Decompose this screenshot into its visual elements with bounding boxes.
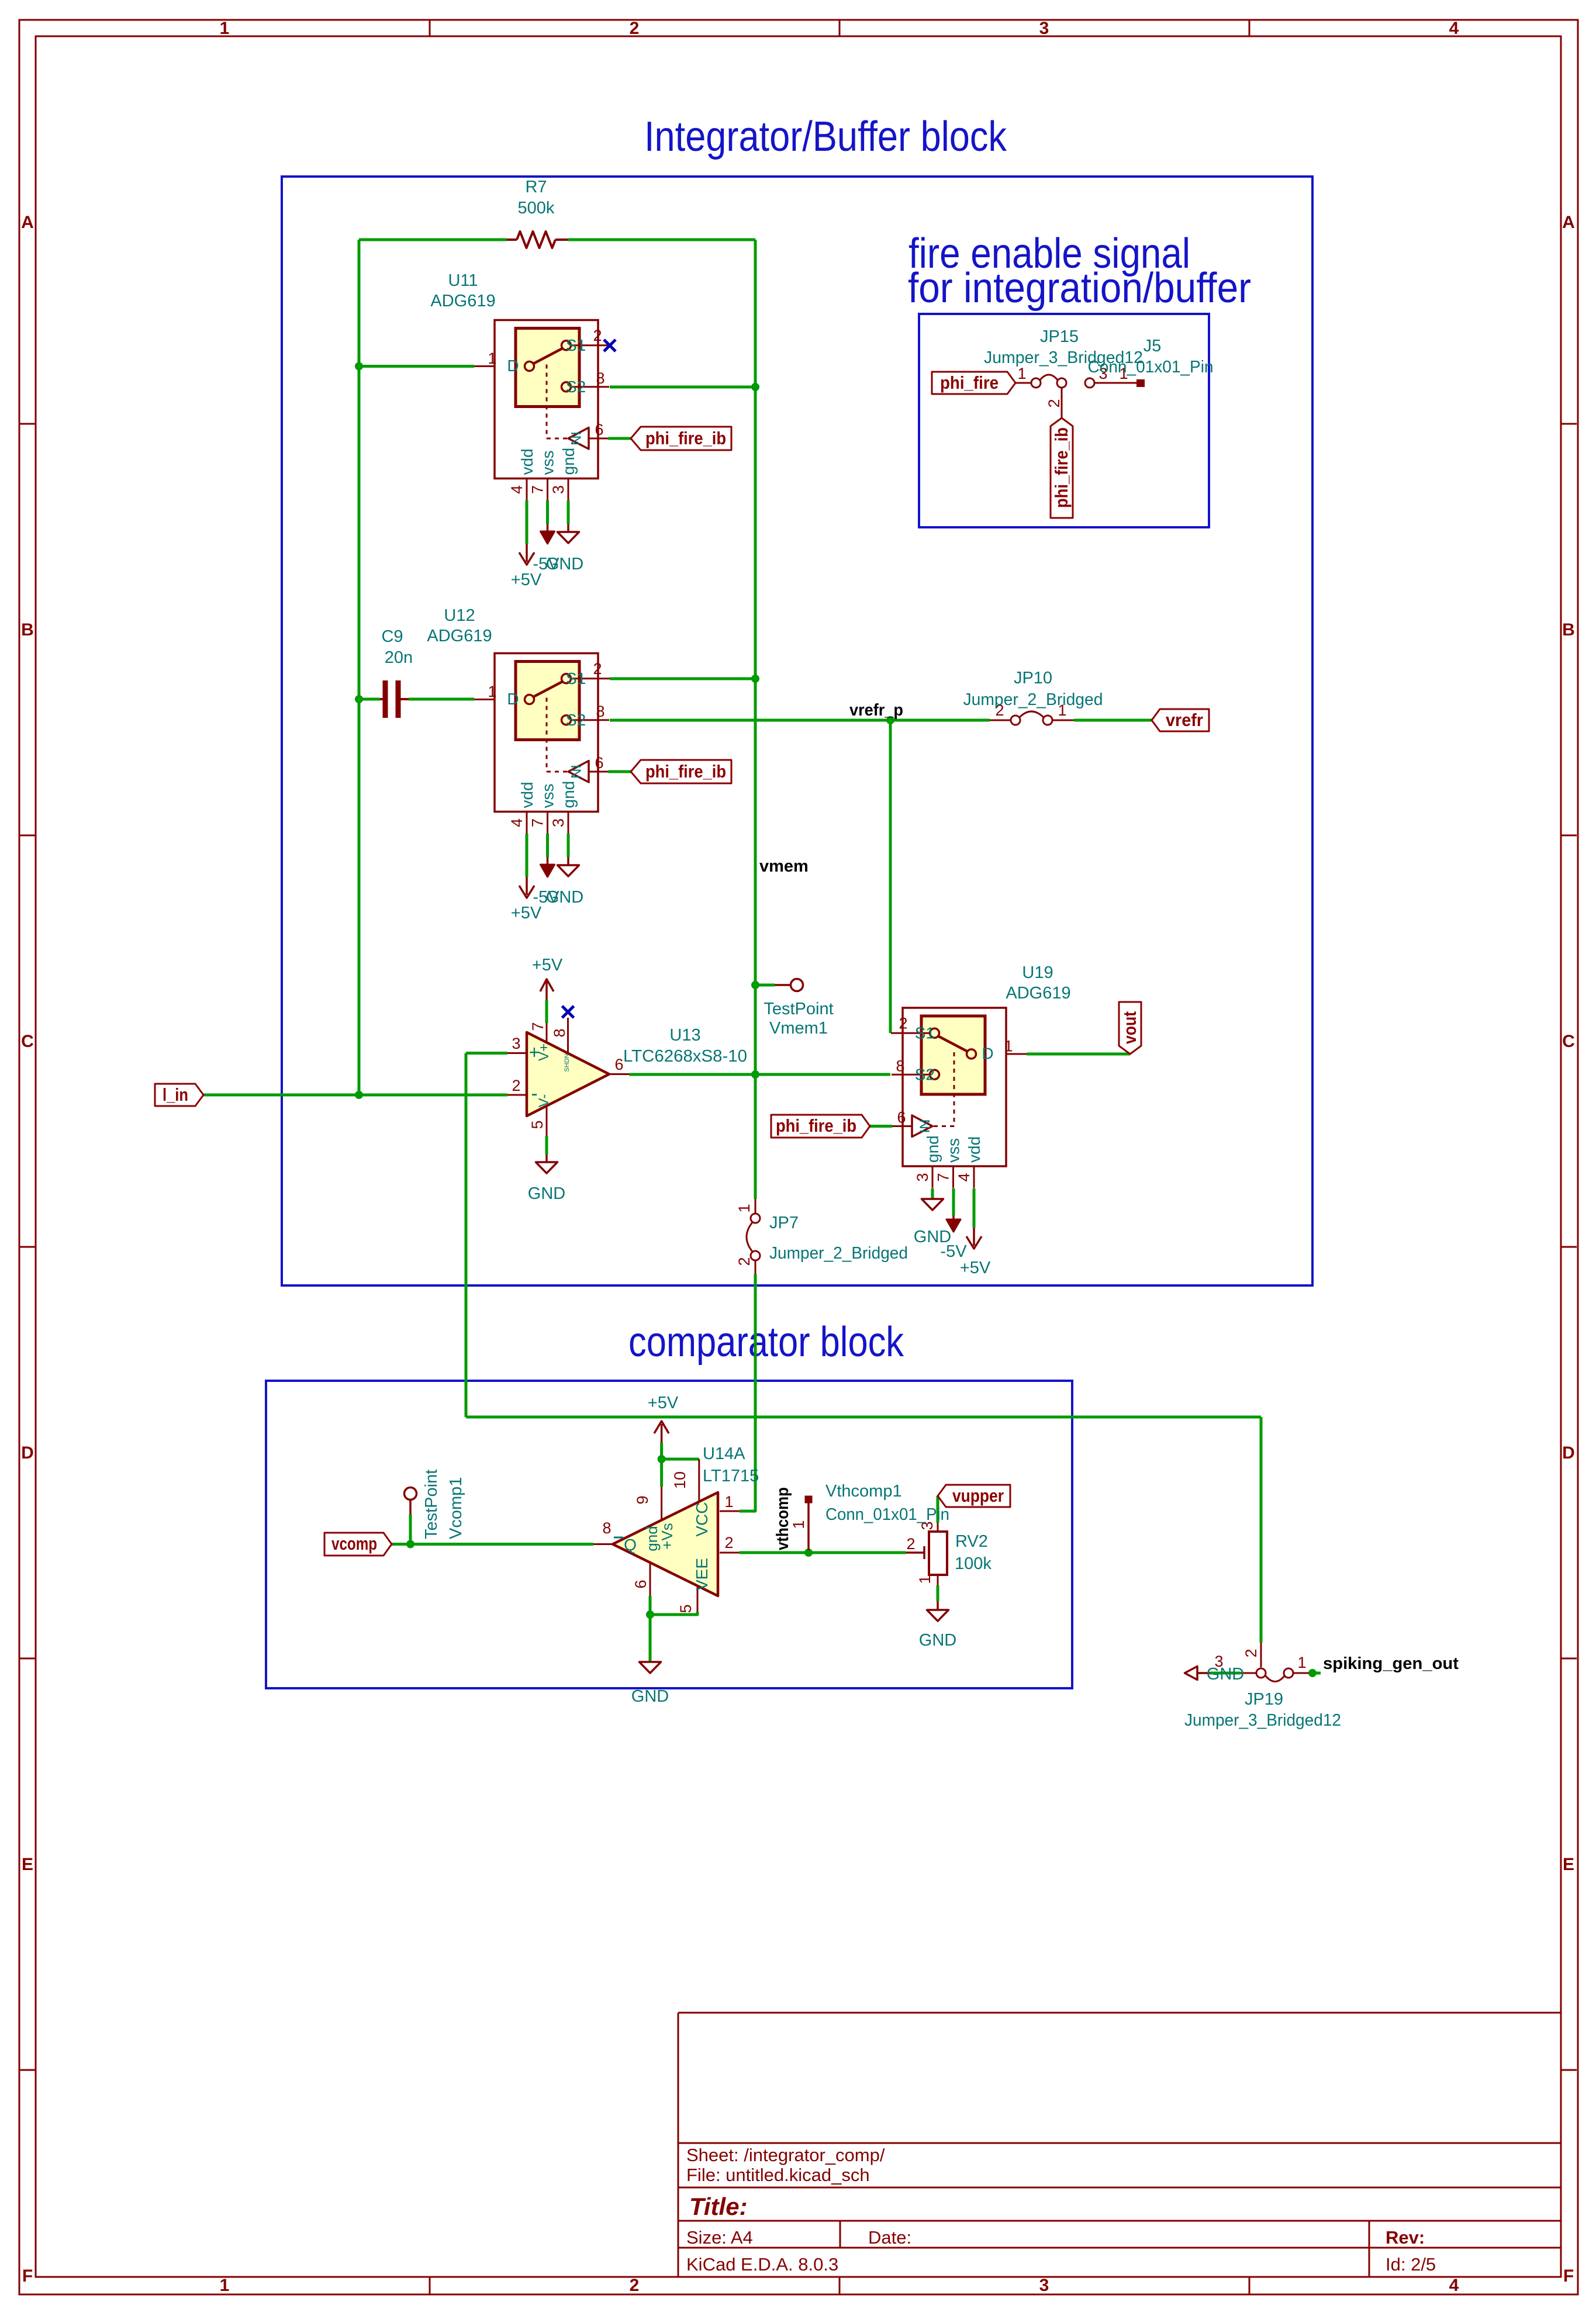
svg-text:V-: V- [536, 1094, 552, 1108]
wire RV2 pin1 to gnd [937, 1585, 939, 1601]
title block texts [686, 2145, 1436, 2275]
global label vertical phi_fire_ib (JP15 pin2) [1051, 418, 1073, 518]
svg-text:gnd: gnd [559, 448, 578, 475]
op-amp U13 LTC6268xS8-10 [507, 1018, 629, 1136]
svg-text:E: E [22, 1855, 33, 1874]
global label phi_fire_ib (U12 pin6) [631, 760, 731, 783]
analog switch U11 ADG619 [474, 320, 610, 501]
svg-text:6: 6 [595, 421, 603, 438]
svg-text:vrefr: vrefr [1166, 710, 1203, 730]
svg-text:U14A: U14A [703, 1444, 745, 1463]
potentiometer RV2 100k [906, 1521, 992, 1585]
svg-text:S1: S1 [566, 336, 586, 354]
no-connect U11 pin2 [604, 340, 616, 351]
svg-text:U13: U13 [669, 1026, 700, 1045]
svg-text:1: 1 [220, 2276, 230, 2295]
svg-text:D: D [507, 357, 519, 375]
wire right vertical feedback bus [754, 240, 757, 1074]
svg-text:TestPoint: TestPoint [764, 1000, 833, 1018]
svg-text:+Vs: +Vs [658, 1523, 676, 1550]
wire U19 vss stub [952, 1188, 955, 1215]
jumper JP10 Jumper_2_Bridged [963, 669, 1103, 725]
svg-text:+5V: +5V [532, 956, 563, 974]
svg-text:3: 3 [512, 1035, 520, 1052]
svg-text:4: 4 [1449, 2276, 1459, 2295]
svg-text:Conn_01x01_Pin: Conn_01x01_Pin [825, 1505, 949, 1524]
svg-text:1: 1 [724, 1493, 733, 1511]
svg-text:JP15: JP15 [1040, 327, 1079, 346]
svg-text:vss: vss [945, 1138, 963, 1163]
U12 reference and value labels [427, 606, 492, 645]
svg-text:GND: GND [1207, 1665, 1244, 1684]
U13 reference and value labels [623, 1026, 747, 1066]
title block [678, 2013, 1561, 2277]
wire U12 pin2 S1 [610, 678, 755, 680]
svg-text:IN: IN [568, 765, 583, 779]
svg-text:vupper: vupper [952, 1485, 1004, 1506]
svg-text:GND: GND [631, 1687, 669, 1706]
svg-text:6: 6 [595, 754, 603, 772]
power +5V at U13 pin7 [532, 956, 563, 1000]
svg-text:3: 3 [914, 1173, 931, 1181]
svg-text:4: 4 [955, 1173, 973, 1181]
svg-text:2: 2 [899, 1015, 907, 1032]
svg-text:Sheet: /integrator_comp/: Sheet: /integrator_comp/ [686, 2145, 885, 2165]
power GND below U14 [631, 1662, 669, 1706]
connector J5 Conn_01x01_Pin labels [1088, 337, 1214, 376]
wire U13 pin3 [466, 1052, 507, 1055]
junction testpoint Vmem1 [751, 981, 759, 989]
U11 reference and value labels [430, 271, 495, 310]
svg-text:8: 8 [596, 369, 604, 387]
wire U19 pin6 from phi_fire_ib [870, 1125, 893, 1128]
svg-text:for integration/buffer: for integration/buffer [908, 265, 1251, 312]
wire +5V to U14 supply [660, 1443, 663, 1459]
svg-text:+5V: +5V [648, 1394, 679, 1412]
wire spiking_gen_out stub [1312, 1672, 1321, 1675]
svg-text:S1: S1 [915, 1024, 935, 1042]
svg-text:vout: vout [1120, 1011, 1140, 1044]
wire U12 gnd stub [567, 834, 570, 858]
svg-text:4: 4 [508, 818, 526, 827]
svg-text:1: 1 [1017, 365, 1026, 382]
global label phi_fire_ib (U19 pin6) [771, 1115, 870, 1138]
wire R7 right feedback [568, 239, 755, 241]
wire C9 left [359, 698, 380, 701]
svg-text:ADG619: ADG619 [1006, 984, 1070, 1003]
wire U14 pin10 feed [662, 1458, 699, 1461]
note: fire enable signal text [908, 230, 1251, 312]
svg-text:2: 2 [724, 1534, 733, 1551]
svg-text:spiking_gen_out: spiking_gen_out [1323, 1654, 1459, 1673]
test point Vcomp1 [405, 1470, 466, 1539]
svg-text:U11: U11 [448, 271, 478, 290]
svg-text:JP10: JP10 [1014, 669, 1052, 687]
svg-text:2: 2 [512, 1077, 520, 1094]
wire U14 pin5 link [650, 1612, 697, 1615]
svg-text:10: 10 [671, 1471, 689, 1489]
wire U13 +input vertical [465, 1053, 468, 1418]
svg-text:3: 3 [550, 485, 567, 494]
wire JP7 lower to U14 VCC [740, 1274, 755, 1511]
svg-text:2: 2 [1045, 399, 1063, 407]
wire vrefr_p vertical to U19 [889, 720, 892, 1033]
power GND at RV2 pin1 [919, 1601, 956, 1650]
svg-text:Q: Q [624, 1536, 637, 1554]
wire l_in to U13 pin2 [203, 1094, 507, 1097]
wire JP7 upper [754, 1074, 757, 1199]
power GND at U19 gnd [914, 1199, 951, 1246]
svg-text:S1: S1 [566, 669, 586, 687]
svg-text:3: 3 [550, 818, 567, 827]
junction vrefr_p [886, 716, 894, 724]
svg-text:JP7: JP7 [769, 1214, 799, 1232]
svg-text:vdd: vdd [518, 782, 536, 808]
junction l_in / U13 -input [355, 1091, 363, 1099]
svg-text:phi_fire_ib: phi_fire_ib [645, 761, 726, 782]
power +5V above U14 [648, 1394, 679, 1443]
global label vupper [938, 1485, 1010, 1507]
wire U14 pin2 out to RV2 [740, 1551, 906, 1554]
svg-text:8: 8 [896, 1057, 904, 1075]
svg-text:7: 7 [529, 1022, 547, 1031]
svg-text:gnd: gnd [559, 781, 578, 808]
power +5V at U19 vdd [960, 1228, 991, 1277]
note box: fire enable block [919, 314, 1209, 527]
wire C9 right to U12 pin1 [409, 698, 474, 701]
svg-text:A: A [1562, 213, 1575, 232]
wire U14 pin9 feed [660, 1459, 663, 1487]
svg-text:F: F [1563, 2266, 1574, 2286]
svg-text:4: 4 [508, 485, 526, 494]
svg-text:8: 8 [602, 1519, 611, 1537]
wire U11 vdd stub [526, 500, 528, 544]
analog switch U19 ADG619 [891, 1008, 1027, 1188]
global label phi_fire_ib (U11 pin6) [631, 427, 731, 450]
svg-text:B: B [1562, 620, 1575, 640]
svg-text:6: 6 [632, 1580, 650, 1588]
svg-text:7: 7 [529, 485, 547, 494]
svg-text:vdd: vdd [518, 448, 536, 475]
junction +5V / U14 supplies [658, 1455, 666, 1463]
wire U11 vss stub [546, 500, 549, 524]
power GND at JP19 pin3 [1185, 1665, 1245, 1684]
svg-text:500k: 500k [518, 199, 555, 217]
svg-text:R7: R7 [525, 178, 547, 196]
wire JP10 to vrefr [1074, 719, 1152, 722]
wire U12 vss stub [546, 834, 549, 858]
svg-text:6: 6 [614, 1056, 623, 1073]
svg-text:Vcomp1: Vcomp1 [447, 1477, 465, 1539]
svg-text:Vthcomp1: Vthcomp1 [825, 1482, 902, 1501]
svg-text:2: 2 [593, 660, 602, 678]
svg-text:4: 4 [1449, 19, 1459, 38]
svg-text:C: C [21, 1032, 34, 1051]
svg-text:Jumper_2_Bridged: Jumper_2_Bridged [769, 1244, 908, 1263]
wire U19 pin1 to vout [1027, 1053, 1130, 1056]
wire U19 gnd stub [931, 1188, 934, 1199]
svg-text:1: 1 [1297, 1654, 1306, 1671]
svg-text:vss: vss [539, 451, 557, 475]
global label vcomp [324, 1533, 392, 1556]
power GND at U11 gnd [546, 524, 583, 574]
svg-text:vss: vss [539, 784, 557, 808]
connector Vthcomp1 Conn_01x01_Pin [790, 1482, 949, 1550]
svg-text:1: 1 [1004, 1038, 1013, 1055]
svg-text:2: 2 [906, 1535, 915, 1553]
svg-text:phi_fire_ib: phi_fire_ib [645, 428, 726, 448]
wire U11 pin8 S2 [610, 386, 755, 389]
svg-text:1: 1 [916, 1575, 934, 1584]
svg-text:E: E [1563, 1855, 1574, 1874]
svg-text:V+: V+ [536, 1043, 552, 1061]
analog switch U12 ADG619 [474, 654, 610, 834]
svg-text:3: 3 [1039, 2276, 1049, 2295]
svg-text:S2: S2 [566, 711, 586, 729]
wire U11 gnd stub [567, 500, 570, 524]
svg-text:SHDN: SHDN [564, 1053, 571, 1072]
wire +5V rail horizontal [466, 1416, 1261, 1419]
U19 reference and value labels [1006, 963, 1070, 1003]
svg-text:A: A [21, 213, 34, 232]
svg-text:vmem: vmem [759, 857, 809, 876]
power +5V at U11 vdd [511, 544, 542, 589]
junction vcomp testpoint [406, 1540, 414, 1549]
svg-text:1: 1 [790, 1520, 807, 1529]
junction U14 pin5-pin6 gnd [646, 1610, 654, 1619]
wire vcomp to U14 pin8 [392, 1543, 593, 1546]
svg-text:Jumper_2_Bridged: Jumper_2_Bridged [963, 690, 1103, 709]
power GND at U12 gnd [546, 858, 583, 907]
capacitor C9 20n [380, 627, 413, 718]
power -5V at U12 vss [533, 858, 559, 907]
comparator U14A LT1715 [593, 1459, 740, 1613]
wire testpoint Vcomp1 stub [409, 1514, 412, 1544]
svg-text:9: 9 [634, 1495, 651, 1504]
junction C9 / feedback [355, 695, 363, 703]
svg-text:Jumper_3_Bridged12: Jumper_3_Bridged12 [1184, 1711, 1341, 1730]
svg-text:5: 5 [677, 1604, 695, 1613]
svg-text:comparator block: comparator block [628, 1319, 904, 1366]
svg-text:JP19: JP19 [1245, 1690, 1283, 1709]
svg-text:D: D [507, 690, 519, 708]
global label vout (vertical) [1119, 1002, 1141, 1054]
svg-text:Id: 2/5: Id: 2/5 [1386, 2254, 1436, 2275]
svg-text:8: 8 [551, 1028, 568, 1037]
svg-text:Date:: Date: [868, 2227, 911, 2248]
svg-text:ADG619: ADG619 [430, 292, 495, 310]
svg-text:2: 2 [735, 1257, 753, 1266]
note box: comparator block [266, 1381, 1072, 1688]
svg-text:6: 6 [897, 1109, 906, 1126]
jumper JP7 Jumper_2_Bridged [735, 1199, 908, 1274]
svg-text:KiCad E.D.A. 8.0.3: KiCad E.D.A. 8.0.3 [686, 2254, 838, 2275]
junction U11 pin8 / feedback [751, 383, 759, 391]
test point Vmem1 [764, 979, 833, 1038]
wire U13 pin7 stub [545, 1000, 548, 1023]
svg-text:TestPoint: TestPoint [422, 1470, 441, 1539]
wire U11 pin6 to phi_fire_ib [609, 437, 631, 440]
svg-text:1: 1 [488, 350, 496, 367]
wire U12 vdd stub [526, 834, 528, 877]
svg-text:Rev:: Rev: [1386, 2227, 1425, 2248]
wire U14 gnd drop [649, 1615, 652, 1662]
svg-text:1: 1 [488, 683, 496, 700]
svg-text:D: D [982, 1045, 993, 1063]
svg-text:2: 2 [630, 2276, 640, 2295]
jumper JP15 Jumper_3_Bridged12 [984, 327, 1145, 418]
svg-text:C9: C9 [381, 627, 403, 646]
note box: integrator/buffer block [282, 177, 1312, 1285]
svg-text:2: 2 [1242, 1648, 1260, 1657]
svg-text:J5: J5 [1144, 337, 1162, 355]
wire R7 left feedback [359, 239, 507, 241]
svg-text:RV2: RV2 [955, 1532, 988, 1551]
junction vthcomp [804, 1549, 813, 1557]
svg-text:100k: 100k [955, 1554, 992, 1573]
svg-text:gnd: gnd [924, 1135, 942, 1163]
resistor R7 500k [507, 178, 568, 248]
svg-text:vdd: vdd [965, 1136, 983, 1163]
svg-text:l_in: l_in [163, 1084, 188, 1105]
svg-text:phi_fire_ib: phi_fire_ib [1051, 427, 1072, 508]
svg-text:1: 1 [735, 1204, 753, 1212]
svg-text:7: 7 [529, 818, 547, 827]
power -5V at U19 vss [940, 1215, 967, 1261]
svg-text:LTC6268xS8-10: LTC6268xS8-10 [623, 1047, 747, 1066]
wire right rail down to JP19 [1260, 1417, 1263, 1643]
wire testpoint Vmem1 stub [755, 984, 775, 987]
svg-text:GND: GND [528, 1184, 565, 1203]
wire U11 pin1 D input [359, 365, 474, 368]
svg-text:7: 7 [935, 1173, 952, 1181]
svg-text:+5V: +5V [960, 1259, 991, 1277]
svg-text:phi_fire_ib: phi_fire_ib [776, 1115, 856, 1136]
no-connect U13 pin8 [562, 1006, 574, 1018]
svg-text:D: D [21, 1443, 34, 1463]
U14A reference and value labels [703, 1444, 759, 1485]
svg-text:IN: IN [917, 1119, 933, 1133]
wire RV2 pin3 to vupper [937, 1496, 939, 1523]
svg-text:S2: S2 [566, 378, 586, 396]
svg-text:vrefr_p: vrefr_p [849, 701, 903, 720]
svg-text:Vmem1: Vmem1 [769, 1019, 828, 1038]
svg-text:Size: A4: Size: A4 [686, 2227, 753, 2248]
svg-text:vthcomp: vthcomp [773, 1487, 792, 1550]
svg-text:GND: GND [546, 555, 583, 573]
svg-text:2: 2 [630, 19, 640, 38]
svg-text:20n: 20n [385, 648, 413, 667]
svg-text:U19: U19 [1022, 963, 1053, 982]
svg-text:2: 2 [593, 327, 602, 344]
svg-text:3: 3 [1039, 19, 1049, 38]
wire JP19 pin3 to GND [1210, 1672, 1241, 1675]
svg-text:GND: GND [546, 888, 583, 907]
junction vmem / feedback [751, 1070, 759, 1079]
svg-text:IN: IN [568, 431, 583, 445]
svg-text:ADG619: ADG619 [427, 627, 492, 645]
svg-text:5: 5 [528, 1120, 546, 1129]
wire U14 pin6 stub [649, 1596, 652, 1615]
svg-text:F: F [22, 2266, 33, 2286]
junction spiking_gen_out [1308, 1669, 1317, 1677]
junction U11 pin1 / feedback [355, 362, 363, 371]
svg-text:GND: GND [919, 1631, 956, 1650]
wire vmem output [629, 1073, 890, 1076]
svg-text:VEE: VEE [693, 1558, 711, 1591]
svg-text:1: 1 [220, 19, 230, 38]
wire left vertical feedback bus [358, 240, 361, 1095]
power -5V at U11 vss [533, 524, 559, 574]
wire U19 vdd stub [973, 1188, 976, 1228]
svg-text:phi_fire: phi_fire [940, 372, 999, 393]
wire U12 pin8 vrefr_p [610, 719, 990, 722]
svg-text:D: D [1562, 1443, 1575, 1463]
global label phi_fire (JP15) [932, 372, 1015, 394]
svg-text:vcomp: vcomp [331, 1533, 377, 1554]
power GND at U13 pin5 [528, 1155, 565, 1203]
svg-text:LT1715: LT1715 [703, 1467, 759, 1485]
svg-text:Conn_01x01_Pin: Conn_01x01_Pin [1088, 358, 1214, 376]
svg-text:U12: U12 [444, 606, 475, 625]
svg-text:S2: S2 [915, 1066, 935, 1084]
svg-text:VCC: VCC [693, 1502, 711, 1536]
svg-text:B: B [21, 620, 34, 640]
power +5V at U12 vdd [511, 877, 542, 922]
svg-text:8: 8 [596, 703, 604, 720]
global label l_in [155, 1084, 203, 1106]
wire U12 pin6 to phi_fire_ib [609, 770, 631, 773]
svg-text:File: untitled.kicad_sch: File: untitled.kicad_sch [686, 2165, 870, 2185]
global label vrefr [1152, 709, 1209, 731]
wire U13 pin5 stub [545, 1136, 548, 1155]
junction U12 pin2 / feedback [751, 675, 759, 683]
svg-text:Title:: Title: [689, 2193, 748, 2220]
jumper JP19 Jumper_3_Bridged12 [1184, 1643, 1341, 1730]
svg-text:C: C [1562, 1032, 1575, 1051]
svg-text:Integrator/Buffer block: Integrator/Buffer block [644, 113, 1007, 160]
